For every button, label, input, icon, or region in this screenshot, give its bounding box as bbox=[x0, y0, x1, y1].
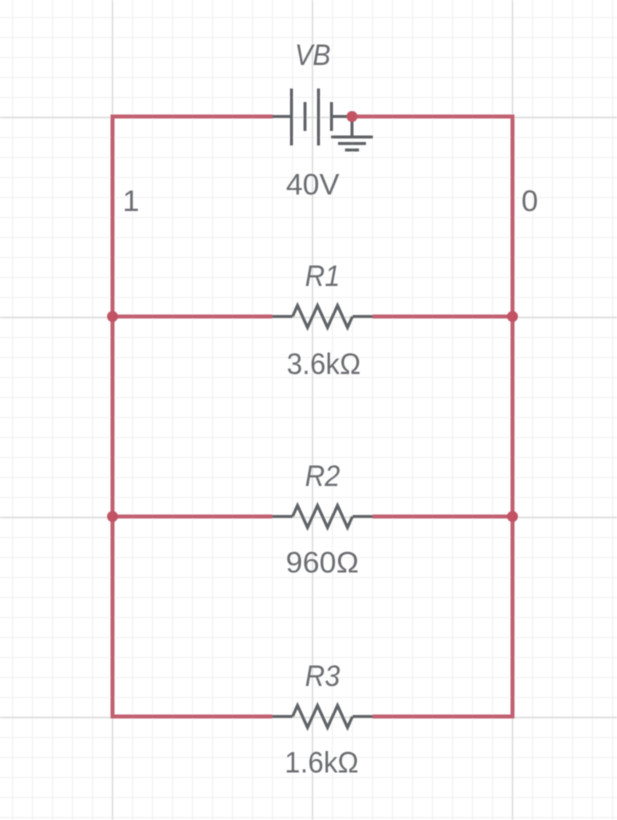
svg-text:40V: 40V bbox=[286, 169, 339, 202]
svg-text:1.6kΩ: 1.6kΩ bbox=[285, 747, 359, 780]
svg-text:960Ω: 960Ω bbox=[286, 547, 359, 580]
svg-text:1: 1 bbox=[123, 185, 140, 218]
svg-text:R1: R1 bbox=[305, 260, 340, 293]
svg-text:R2: R2 bbox=[305, 460, 340, 493]
svg-text:R3: R3 bbox=[305, 660, 340, 693]
svg-text:VB: VB bbox=[295, 39, 331, 72]
svg-text:0: 0 bbox=[521, 185, 538, 218]
svg-text:3.6kΩ: 3.6kΩ bbox=[287, 348, 361, 381]
